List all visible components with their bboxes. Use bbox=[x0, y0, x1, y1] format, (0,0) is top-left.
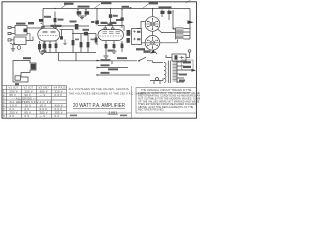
capacitor C6 coupling bbox=[84, 32, 88, 36]
resistor R12 bbox=[121, 41, 124, 52]
border frame (drawn, but decorative) bbox=[2, 2, 197, 118]
svg-text:300 V: 300 V bbox=[40, 89, 48, 93]
wire right drop bbox=[172, 10, 174, 29]
input jack J2 bbox=[8, 32, 15, 34]
svg-text:— V: — V bbox=[40, 93, 46, 97]
svg-text:V1 6J7: V1 6J7 bbox=[9, 86, 19, 90]
resistor R16 bbox=[87, 34, 90, 53]
label P bbox=[15, 83, 19, 85]
value label right of R10 bbox=[113, 15, 118, 17]
svg-text:0 V: 0 V bbox=[10, 107, 15, 111]
resistor R10 grid stopper bbox=[109, 9, 112, 26]
arrow HT+ direction bbox=[130, 7, 133, 9]
table cell text bbox=[3, 86, 66, 118]
wire heater bus above V2 bbox=[98, 25, 124, 27]
wire to fuse bbox=[166, 55, 172, 58]
tap labels bbox=[183, 61, 191, 63]
transformer T1 taps bbox=[177, 62, 192, 82]
svg-text:6.3 V: 6.3 V bbox=[40, 107, 48, 111]
wire HT+ bus top bbox=[43, 9, 190, 29]
svg-text:90 V: 90 V bbox=[25, 93, 32, 97]
wire chassis bus bottom bbox=[59, 60, 138, 62]
designator label EL33 bbox=[136, 48, 145, 50]
node label 560K pointer bbox=[61, 4, 67, 8]
value label near R16 bbox=[91, 39, 95, 41]
wire mains line B bbox=[97, 67, 128, 69]
capacitor C13 reservoir bbox=[160, 10, 164, 18]
svg-text:85 V: 85 V bbox=[25, 110, 32, 114]
ground below C2 R5 bbox=[40, 52, 46, 55]
svg-text:1951: 1951 bbox=[109, 111, 118, 115]
svg-text:0 V: 0 V bbox=[10, 114, 15, 118]
resistor R5 cathode bbox=[44, 41, 47, 52]
arrow out secondary bbox=[192, 69, 197, 72]
label on line A bbox=[101, 59, 111, 61]
resistor R11 bias bbox=[105, 41, 108, 56]
drawing title 20 WATT P.A. AMPLIFIER bbox=[70, 103, 127, 116]
arrow tag line C bbox=[97, 74, 101, 76]
speaker LS1 field coil block bbox=[13, 61, 36, 83]
value label left of R20 bbox=[91, 21, 95, 23]
capacitor C2 coupling bbox=[38, 41, 41, 52]
tap label box bbox=[182, 60, 194, 70]
wire HT+ drop to arrow bbox=[189, 9, 191, 40]
node label 350V pointer bbox=[143, 4, 149, 8]
designator V4 5Z4 bbox=[144, 50, 151, 52]
svg-text:0 V: 0 V bbox=[25, 114, 30, 118]
svg-text:RECTIFIER PROVED.: RECTIFIER PROVED. bbox=[138, 109, 164, 112]
capacitor block C11 C12 8+8uF bbox=[132, 29, 142, 45]
value label near R15 bbox=[75, 39, 79, 41]
wire grid V1a bbox=[27, 27, 43, 29]
resistor R18 stack bbox=[127, 30, 131, 36]
ground below C10 bbox=[112, 51, 117, 53]
voltage table bbox=[2, 86, 67, 118]
svg-text:85 V: 85 V bbox=[10, 93, 17, 97]
resistor R13 on anode line bbox=[121, 18, 124, 21]
wire mains line C bbox=[97, 74, 150, 76]
potentiometer VR1 gain bbox=[14, 37, 33, 45]
label near grid wire bbox=[28, 22, 34, 24]
valve V1 twin triode envelope bbox=[38, 27, 60, 41]
wire anode feed V1a bbox=[54, 12, 56, 19]
svg-text:255 V: 255 V bbox=[25, 89, 33, 93]
capacitor C8 smoothing bbox=[85, 10, 90, 17]
wire screen feed V2 bbox=[96, 9, 98, 26]
svg-text:12 V: 12 V bbox=[25, 103, 32, 107]
svg-text:ALL HEATERS 6.3 V A.C. 2 A: ALL HEATERS 6.3 V A.C. 2 A bbox=[10, 100, 52, 104]
svg-text:V3 6N7: V3 6N7 bbox=[39, 86, 50, 90]
node label pointer to V2 anode bbox=[94, 4, 100, 8]
wire bus step down bbox=[58, 53, 60, 61]
svg-text:1.5 V: 1.5 V bbox=[10, 103, 18, 107]
svg-text:16 V: 16 V bbox=[40, 103, 47, 107]
svg-text:V2 6J7: V2 6J7 bbox=[24, 86, 34, 90]
ground stub mid bbox=[63, 40, 67, 45]
resistor R4 100K anode bbox=[54, 18, 57, 29]
value label 40 ohm bbox=[108, 50, 114, 52]
value label 0.05 bbox=[83, 29, 90, 31]
value label lower bbox=[108, 23, 113, 25]
svg-text:8: 8 bbox=[3, 114, 5, 118]
jack bush J4 bbox=[17, 46, 21, 50]
valve V2 output pentode envelope bbox=[98, 26, 124, 41]
value label 350V bbox=[149, 2, 159, 4]
capacitor C14 reservoir bbox=[167, 10, 171, 21]
resistor R17 grid stopper bbox=[95, 34, 98, 45]
value label 560K bbox=[64, 3, 74, 5]
wire anode V2 bbox=[121, 9, 123, 29]
note box bbox=[136, 88, 202, 114]
label on line C bbox=[101, 72, 110, 74]
svg-text:315 V: 315 V bbox=[55, 89, 63, 93]
resistor R1 grid leak bbox=[10, 43, 17, 45]
svg-text:6: 6 bbox=[3, 107, 5, 111]
label speaker bbox=[23, 57, 31, 59]
label fuse B bbox=[108, 68, 118, 70]
value label 100K bbox=[58, 19, 64, 21]
fuse box F1 bbox=[172, 54, 186, 61]
designator V2 PX25 bbox=[101, 22, 108, 24]
svg-text:2: 2 bbox=[3, 93, 5, 97]
wire grid feed splitter bbox=[61, 30, 63, 40]
input jack J1 bbox=[8, 26, 15, 28]
wire V3 to V4 link bbox=[152, 31, 154, 35]
svg-text:355 V: 355 V bbox=[55, 110, 63, 114]
svg-text:— V: — V bbox=[40, 114, 46, 118]
svg-text:ALL VOLTAGES ON THE VALVES, CH: ALL VOLTAGES ON THE VALVES, CHASSIS bbox=[69, 87, 129, 91]
typed note two lines bbox=[69, 87, 146, 96]
svg-text:0 V: 0 V bbox=[55, 114, 60, 118]
resistor R6 cathode bbox=[43, 41, 46, 53]
value label 40uF bbox=[78, 6, 90, 8]
svg-text:7: 7 bbox=[3, 110, 5, 114]
wire tick line A bbox=[111, 61, 113, 64]
svg-text:250 V: 250 V bbox=[10, 110, 18, 114]
capacitor C5 blob on grid feed bbox=[60, 36, 63, 39]
resistor R15 bbox=[80, 34, 83, 53]
plus polarity marks bbox=[173, 27, 175, 29]
valve V4 envelope bbox=[145, 36, 160, 51]
input jack J3 bbox=[8, 39, 14, 41]
junction dots on HT bus bbox=[55, 9, 153, 10]
value label at bus left bbox=[42, 50, 47, 52]
capacitor C3 cathode bypass bbox=[49, 41, 52, 53]
wire anode top V1b bbox=[60, 29, 74, 31]
resistor R7 bias bbox=[55, 41, 58, 53]
ground below R1 bbox=[11, 45, 15, 51]
pointer arrow to V4 bbox=[150, 50, 155, 54]
transformer T2 mic input bbox=[15, 25, 27, 35]
svg-text:0 V: 0 V bbox=[25, 107, 30, 111]
wire cap box to V4 bbox=[142, 42, 146, 44]
resistor R9 anode load bbox=[75, 24, 79, 30]
svg-text:— ALL GRIDS —: — ALL GRIDS — bbox=[12, 96, 36, 100]
net label HT+ bbox=[122, 6, 130, 8]
arrow tag line A bbox=[97, 60, 101, 62]
resistor R20 on screen feed bbox=[95, 21, 99, 25]
switch S1 mains bbox=[138, 57, 152, 62]
arrow tag line B bbox=[97, 67, 101, 69]
capacitor C7 smoothing bbox=[77, 10, 82, 17]
ground below R11 bbox=[104, 56, 109, 58]
resistor R19 stack bbox=[127, 38, 130, 43]
svg-text:300 V: 300 V bbox=[40, 110, 48, 114]
junction dot below C1 bbox=[40, 22, 42, 24]
wire bus drop bbox=[75, 53, 77, 61]
valve V3 rectifier envelope bbox=[145, 9, 160, 32]
svg-text:1: 1 bbox=[3, 89, 5, 93]
wire box1 lower tap bbox=[27, 34, 30, 41]
svg-text:V4 PX25: V4 PX25 bbox=[54, 86, 67, 90]
svg-text:3: 3 bbox=[3, 96, 5, 100]
designator label mic bbox=[16, 23, 26, 25]
resistor R14 leak bbox=[72, 30, 75, 53]
transformer T1 mains primary bbox=[153, 63, 167, 83]
wire primary bottom bbox=[162, 78, 164, 81]
label on line B bbox=[101, 64, 110, 66]
label switch bbox=[117, 57, 127, 59]
svg-text:250 V: 250 V bbox=[10, 89, 18, 93]
value label 8uF 8uF bbox=[159, 6, 172, 8]
title block dividers bbox=[67, 86, 132, 118]
capacitor C1 coupling on grid line bbox=[39, 19, 43, 22]
value label left of anode drop bbox=[116, 19, 121, 21]
value label above R9 bbox=[70, 21, 77, 23]
svg-text:THE VOLTAGES MEASURED AT THE 2: THE VOLTAGES MEASURED AT THE 230 V A.C. … bbox=[69, 92, 146, 96]
wire cathode bus bbox=[44, 52, 96, 54]
capacitor C10 bias bbox=[113, 41, 116, 51]
mains connector PL1 bbox=[150, 78, 163, 85]
lamp LP1 bbox=[186, 50, 191, 58]
svg-text:4: 4 bbox=[3, 100, 5, 104]
transformer T1 core bbox=[168, 61, 170, 84]
ground chassis below C7 C8 bbox=[78, 16, 86, 20]
wire splitter mid bbox=[72, 33, 96, 35]
scan crease mark top right bbox=[186, 0, 191, 3]
svg-text:410 V: 410 V bbox=[55, 103, 63, 107]
svg-text:5: 5 bbox=[3, 103, 5, 107]
wire to R18 bbox=[123, 26, 125, 32]
svg-text:6.3 V: 6.3 V bbox=[55, 93, 63, 97]
transformer T1 secondary bbox=[173, 61, 178, 84]
wire cap box to rectifier bbox=[137, 22, 146, 29]
transformer T3 HT winding bbox=[176, 28, 191, 40]
wire anode rail above V1 bbox=[43, 25, 89, 27]
arrow out HT bbox=[188, 20, 194, 24]
wire rectifier links bbox=[158, 29, 178, 43]
value label 0.05 bbox=[44, 16, 51, 18]
designator V1 6SL7 bbox=[51, 25, 62, 27]
svg-text:6.3 V: 6.3 V bbox=[55, 107, 63, 111]
value label EL34 bbox=[101, 2, 112, 4]
